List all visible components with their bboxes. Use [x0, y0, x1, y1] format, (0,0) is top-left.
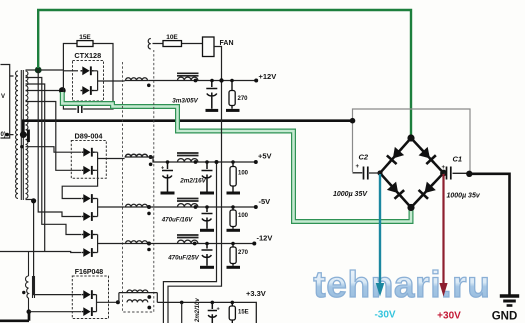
node C1 out — [466, 171, 472, 177]
wire -30V (teal) — [379, 174, 381, 284]
capacitor 2m2/16V — [162, 162, 173, 192]
wire tap y199.5 — [26, 199, 34, 201]
wire +30V (dark red) — [442, 174, 444, 284]
wire v2 (5V to 3.3V) — [163, 162, 216, 323]
wire to GND — [469, 174, 509, 295]
bridge diode D1 (top-left) — [384, 144, 407, 168]
resistor 270 — [231, 81, 233, 109]
-5V rail — [125, 206, 149, 208]
svg-text:+: + — [217, 307, 220, 313]
capacitor C1 — [444, 172, 469, 174]
wire D6 input long — [0, 252, 81, 253]
resistor 100 (-5V) — [232, 207, 234, 229]
svg-text:470uF/16V: 470uF/16V — [161, 217, 193, 224]
wire v x33.6 to F16 D1 — [34, 201, 81, 295]
capacitor 470uF/16V — [202, 207, 213, 229]
node bus/gray — [350, 118, 356, 124]
wire v x44.7 — [26, 84, 45, 252]
svg-text:-30V: -30V — [374, 310, 395, 321]
watermark tehnari.ru — [313, 264, 490, 305]
connector box J1 (left edge) — [1, 65, 14, 139]
pin dot — [5, 133, 9, 137]
wire v x41.8 to D5 — [26, 78, 82, 235]
node AC top — [407, 134, 414, 141]
capacitor 2m2/10v — [208, 302, 217, 323]
node B — [59, 87, 66, 94]
bridge rectifier diamond — [380, 138, 444, 208]
svg-text:10E: 10E — [166, 34, 178, 41]
svg-text:1000µ 35V: 1000µ 35V — [333, 191, 368, 198]
fan winding — [148, 39, 151, 49]
gray frame wire (bridge to caps) — [353, 109, 471, 173]
+3.3V rail — [157, 302, 256, 323]
inductor L1b — [177, 73, 199, 76]
svg-text:100: 100 — [238, 213, 249, 219]
snubber box around CTX128 — [63, 44, 113, 110]
wire FAN to +12V and down (v1) — [168, 47, 222, 323]
svg-text:D89-004: D89-004 — [75, 132, 104, 141]
svg-text:2m2/16V: 2m2/16V — [179, 178, 206, 185]
svg-text:+: + — [356, 164, 360, 170]
wire green A (xfmr to bridge top) — [38, 10, 411, 137]
svg-text:15E: 15E — [79, 34, 91, 41]
svg-text:+30V: +30V — [437, 311, 461, 322]
wire: tap to CTX bottom diode — [26, 90, 63, 92]
wire stems below 3.3V rail — [181, 302, 183, 323]
wire tap y101.5 — [26, 102, 82, 171]
resistor 100 — [232, 162, 234, 192]
-12V rail — [125, 243, 149, 245]
svg-text:470uF/25V: 470uF/25V — [167, 255, 199, 262]
resistor 15E (3.3V) — [231, 302, 233, 323]
svg-text:270: 270 — [238, 96, 249, 102]
node +30V vertex — [440, 170, 447, 177]
wire v x38.2 to D4 — [38, 70, 81, 217]
diodes D3-D6 — [82, 194, 95, 203]
wire green B (xfmr to bridge bottom) — [62, 92, 411, 222]
capacitor C2 — [353, 172, 381, 174]
svg-text:-12V: -12V — [257, 234, 273, 243]
bridge diode D3 (bottom-left) — [384, 178, 407, 202]
wire — [148, 80, 256, 82]
svg-text:100: 100 — [238, 171, 249, 177]
capacitor 3m3/05V — [206, 81, 217, 109]
inductor L5 (standby) — [26, 252, 35, 312]
dashed choke assembly box — [123, 50, 154, 312]
svg-text:C2: C2 — [359, 153, 369, 162]
ground — [500, 294, 519, 297]
svg-text:+: + — [442, 165, 446, 171]
node A (green/xfmr junction) — [35, 67, 42, 74]
svg-text:+12V: +12V — [259, 72, 277, 81]
svg-text:V: V — [1, 94, 5, 100]
transformer T1 — [16, 70, 28, 200]
wire: main ground bus (thick black) — [23, 121, 352, 135]
resistor 10E — [153, 43, 203, 45]
wire tap y146.7 to D1 — [26, 147, 82, 153]
svg-text:CTX128: CTX128 — [74, 51, 101, 60]
svg-text:-5V: -5V — [259, 197, 271, 206]
fan connector — [203, 37, 215, 57]
svg-text:GND: GND — [492, 311, 518, 323]
svg-text:270: 270 — [238, 250, 249, 256]
wire: left cascade verticals — [0, 70, 98, 295]
svg-text:3m3/05V: 3m3/05V — [172, 98, 198, 105]
capacitor 470uF/25V — [202, 244, 213, 266]
bridge diode D4 (bottom-right) — [416, 178, 439, 201]
wire bottom-left thick — [0, 312, 29, 321]
svg-text:+: + — [161, 166, 164, 172]
bridge diode D2 (top-right) — [416, 144, 439, 168]
svg-text:0): 0) — [1, 132, 6, 138]
+5V rail — [125, 156, 149, 158]
connector pin bar — [27, 130, 30, 143]
svg-text:15E: 15E — [238, 310, 249, 316]
node -30V vertex — [377, 170, 382, 175]
svg-text:+3.3V: +3.3V — [246, 289, 266, 298]
wire: tap to CTX top diode — [26, 69, 64, 71]
wire to F16 D2 — [29, 311, 81, 313]
+3.3V double winding — [116, 300, 120, 304]
node AC bottom — [407, 204, 414, 211]
node +12V — [254, 79, 258, 83]
svg-text:1000µ 35v: 1000µ 35v — [447, 193, 481, 200]
svg-text:tehnari.ru: tehnari.ru — [313, 264, 490, 305]
svg-text:C1: C1 — [453, 155, 463, 164]
wire D2-D3 link — [62, 170, 97, 198]
choke winding L1a — [125, 80, 149, 82]
svg-text:+5V: +5V — [258, 152, 272, 161]
resistor 15E (snubber) — [77, 41, 93, 47]
capacitor (snubber) — [78, 105, 82, 113]
svg-text:F16P048: F16P048 — [75, 269, 104, 276]
svg-text:2m2/10v: 2m2/10v — [195, 298, 201, 323]
junction dot center tap — [20, 131, 27, 138]
capacitor C (5V second) — [202, 162, 213, 192]
resistor 270 (-12V) — [232, 244, 234, 266]
